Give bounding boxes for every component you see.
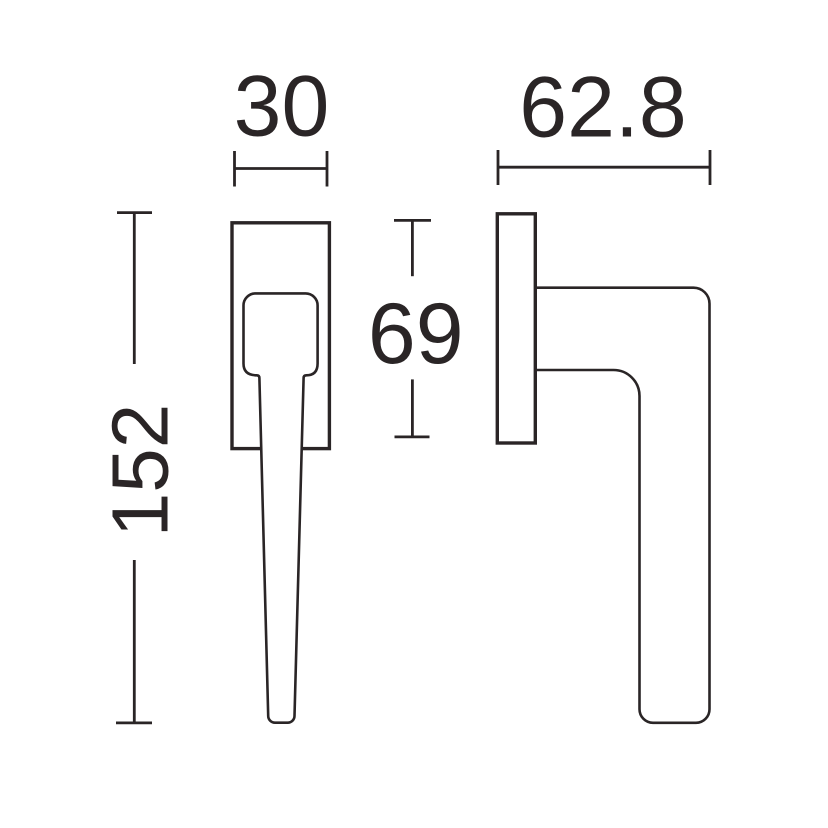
svg-text:69: 69 xyxy=(368,286,464,382)
side view plate xyxy=(497,214,535,443)
dim 152 (left, rotated) xyxy=(116,213,152,723)
front view plate xyxy=(232,223,329,449)
dim line 62.8 xyxy=(498,150,710,185)
svg-text:62.8: 62.8 xyxy=(519,60,686,156)
front view handle (head + stem) xyxy=(244,293,318,722)
svg-text:30: 30 xyxy=(234,59,330,155)
side view handle xyxy=(537,288,710,723)
dim 69 (middle) xyxy=(394,220,431,437)
svg-text:152: 152 xyxy=(96,404,185,537)
dim line 30 xyxy=(235,151,328,187)
